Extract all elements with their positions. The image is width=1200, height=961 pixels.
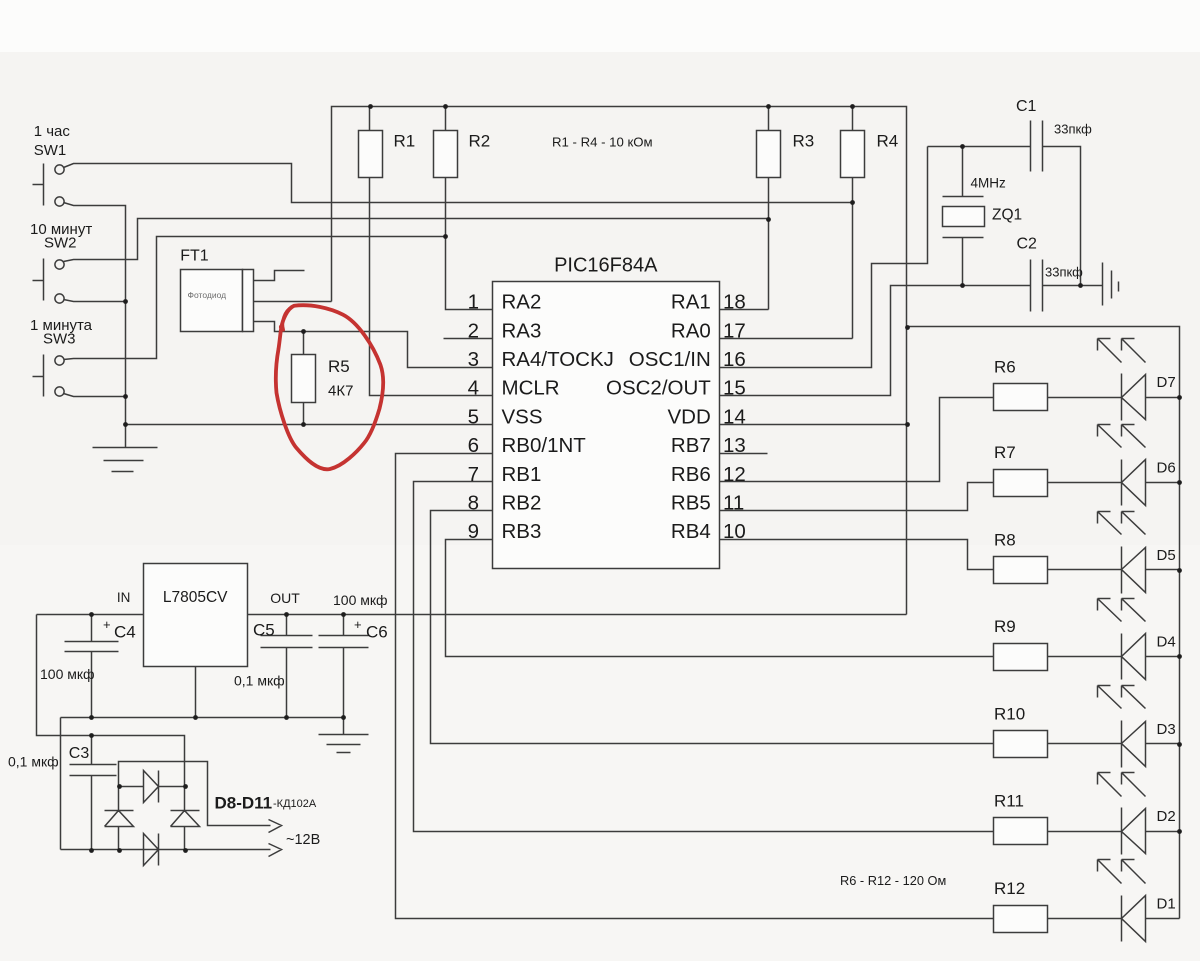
svg-text:11: 11 (723, 492, 744, 515)
svg-text:16: 16 (723, 348, 746, 371)
svg-text:17: 17 (723, 319, 746, 342)
svg-text:C5: C5 (253, 621, 275, 640)
svg-text:RB1: RB1 (502, 463, 542, 486)
svg-text:R1 - R4 - 10 кОм: R1 - R4 - 10 кОм (552, 135, 653, 150)
svg-text:33пкф: 33пкф (1045, 265, 1083, 280)
svg-text:100 мкф: 100 мкф (40, 666, 95, 682)
svg-text:RA3: RA3 (502, 319, 542, 342)
svg-text:RA4/TOCKJ: RA4/TOCKJ (502, 348, 614, 371)
svg-text:D7: D7 (1157, 374, 1176, 391)
svg-text:R1: R1 (394, 132, 416, 151)
svg-text:RA1: RA1 (671, 291, 711, 314)
svg-text:12: 12 (723, 463, 746, 486)
svg-text:13: 13 (723, 434, 746, 457)
svg-text:7: 7 (468, 463, 479, 486)
svg-text:D5: D5 (1157, 547, 1176, 564)
svg-text:RB6: RB6 (671, 463, 711, 486)
svg-text:VSS: VSS (502, 405, 543, 428)
svg-text:R9: R9 (994, 617, 1016, 636)
svg-text:R10: R10 (994, 704, 1025, 723)
svg-text:SW2: SW2 (44, 235, 77, 252)
svg-text:RB4: RB4 (671, 520, 711, 543)
svg-text:VDD: VDD (668, 405, 711, 428)
svg-text:C1: C1 (1016, 98, 1037, 115)
svg-text:D3: D3 (1157, 721, 1176, 738)
svg-text:4MHz: 4MHz (971, 176, 1007, 191)
svg-text:D2: D2 (1157, 808, 1176, 825)
svg-text:R11: R11 (994, 792, 1024, 811)
svg-text:C6: C6 (366, 623, 388, 642)
svg-text:FT1: FT1 (180, 248, 209, 265)
svg-text:R6: R6 (994, 358, 1016, 377)
svg-text:R8: R8 (994, 530, 1016, 549)
svg-text:R12: R12 (994, 879, 1025, 898)
svg-text:RA2: RA2 (502, 291, 542, 314)
svg-text:6: 6 (468, 434, 479, 457)
svg-text:L7805CV: L7805CV (163, 589, 228, 606)
svg-text:C2: C2 (1017, 236, 1038, 253)
svg-text:D6: D6 (1157, 460, 1176, 477)
svg-text:~12В: ~12В (286, 832, 320, 848)
svg-text:-КД102А: -КД102А (273, 798, 317, 810)
svg-text:PIC16F84A: PIC16F84A (554, 255, 658, 277)
svg-text:14: 14 (723, 405, 746, 428)
svg-text:R2: R2 (469, 132, 491, 151)
svg-text:OSC1/IN: OSC1/IN (629, 348, 711, 371)
svg-text:RA0: RA0 (671, 319, 711, 342)
svg-text:D8-D11: D8-D11 (215, 794, 273, 813)
svg-text:4К7: 4К7 (328, 383, 353, 400)
svg-text:0,1 мкф: 0,1 мкф (234, 673, 285, 689)
svg-text:8: 8 (468, 492, 479, 515)
svg-text:R7: R7 (994, 443, 1016, 462)
svg-text:2: 2 (468, 319, 479, 342)
svg-text:5: 5 (468, 405, 479, 428)
svg-text:33пкф: 33пкф (1054, 122, 1092, 137)
svg-text:SW1: SW1 (34, 142, 67, 159)
svg-text:RB5: RB5 (671, 492, 711, 515)
svg-text:D4: D4 (1157, 634, 1176, 651)
svg-text:R3: R3 (793, 132, 815, 151)
svg-text:100 мкф: 100 мкф (333, 592, 388, 608)
svg-text:R4: R4 (877, 132, 899, 151)
svg-text:RB2: RB2 (502, 492, 542, 515)
svg-text:+: + (354, 617, 362, 632)
svg-text:OUT: OUT (270, 590, 300, 606)
svg-text:OSC2/OUT: OSC2/OUT (606, 377, 711, 400)
svg-text:RB7: RB7 (671, 434, 711, 457)
svg-text:Фотодиод: Фотодиод (188, 290, 227, 300)
svg-text:+: + (103, 617, 111, 632)
svg-text:ZQ1: ZQ1 (992, 207, 1022, 224)
svg-text:4: 4 (468, 377, 479, 400)
svg-text:D1: D1 (1157, 895, 1176, 912)
svg-text:C4: C4 (114, 623, 136, 642)
svg-text:0,1 мкф: 0,1 мкф (8, 754, 59, 770)
svg-text:SW3: SW3 (43, 331, 76, 348)
svg-text:9: 9 (468, 520, 479, 543)
svg-text:18: 18 (723, 291, 746, 314)
svg-text:3: 3 (468, 348, 479, 371)
svg-text:R6 - R12 - 120 Ом: R6 - R12 - 120 Ом (840, 873, 946, 888)
svg-text:IN: IN (117, 590, 131, 605)
svg-text:C3: C3 (69, 745, 90, 762)
svg-text:10: 10 (723, 520, 746, 543)
svg-text:RB0/1NT: RB0/1NT (502, 434, 587, 457)
svg-text:1: 1 (468, 291, 479, 314)
svg-text:RB3: RB3 (502, 520, 542, 543)
svg-text:MCLR: MCLR (502, 377, 560, 400)
svg-text:R5: R5 (328, 357, 350, 376)
svg-text:1 час: 1 час (34, 123, 71, 140)
svg-text:15: 15 (723, 377, 746, 400)
